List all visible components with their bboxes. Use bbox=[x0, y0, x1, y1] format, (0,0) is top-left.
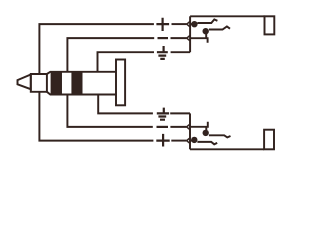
jack J2 ring contact stem bbox=[205, 127, 207, 131]
wire ring contact to bottom bbox=[67, 95, 152, 127]
jack J1 switch lever bbox=[209, 27, 230, 30]
wire sleeve to top bbox=[98, 52, 155, 72]
wire ground top right bbox=[171, 51, 191, 53]
wire tip contact to top bbox=[39, 24, 153, 74]
wire ground bottom right bbox=[170, 112, 190, 114]
plus symbol top bbox=[156, 18, 169, 31]
jack J2 ring contact dot bbox=[203, 130, 209, 136]
TRS plug P1 flange bbox=[116, 60, 125, 106]
plus symbol bottom bbox=[156, 134, 169, 147]
jack J1 tip contact dot bbox=[191, 21, 197, 27]
jack J1 frame bar bbox=[189, 16, 191, 52]
TRS plug P1 insulator band 2 bbox=[72, 72, 82, 95]
wire minus bottom right bbox=[170, 126, 186, 128]
wire minus top right bbox=[171, 37, 187, 39]
jack J1 ring contact stem bbox=[205, 34, 207, 39]
wire ring contact to top bbox=[67, 38, 154, 72]
minus symbol top bbox=[158, 37, 169, 39]
jack J1 ring lever bbox=[190, 38, 208, 43]
wire plus top right bbox=[172, 23, 187, 25]
TRS plug P1 insulator band 1 bbox=[51, 72, 61, 95]
jack J1 ring contact dot bbox=[203, 28, 209, 34]
jack J2 tip contact dot bbox=[191, 137, 197, 143]
TRS plug P1 tip contact shaft bbox=[31, 74, 47, 92]
wire tip contact to bottom bbox=[39, 92, 153, 141]
TRS plug P1 barrel outline bbox=[47, 72, 116, 95]
minus symbol bottom bbox=[157, 126, 169, 128]
jack J2 tip contact lever bbox=[190, 141, 217, 145]
ground symbol bottom bbox=[157, 108, 169, 120]
jack J1 brace junction ring bbox=[187, 35, 190, 41]
TRS plug P1 tip bbox=[18, 75, 31, 90]
TRS plug P1 ring section edges bbox=[61, 72, 72, 95]
jack J2 brace junction ring bbox=[187, 124, 190, 130]
ground symbol top bbox=[157, 46, 168, 59]
wire sleeve to bottom bbox=[98, 95, 153, 114]
jack J2 sleeve wire to terminal bbox=[190, 148, 264, 150]
jack J1 brace junction tip bbox=[187, 21, 190, 27]
jack J1 tip contact lever bbox=[190, 19, 217, 24]
jack J2 frame bar bbox=[189, 113, 191, 149]
jack J1 sleeve terminal lug bbox=[265, 16, 275, 34]
jack J2 brace junction tip bbox=[187, 138, 190, 144]
jack J2 switch lever bbox=[209, 135, 231, 137]
jack J2 ring lever bbox=[190, 122, 208, 127]
wire plus bottom right bbox=[171, 140, 187, 142]
jack J1 sleeve wire to terminal bbox=[190, 15, 264, 17]
jack J2 sleeve terminal lug bbox=[264, 130, 274, 150]
